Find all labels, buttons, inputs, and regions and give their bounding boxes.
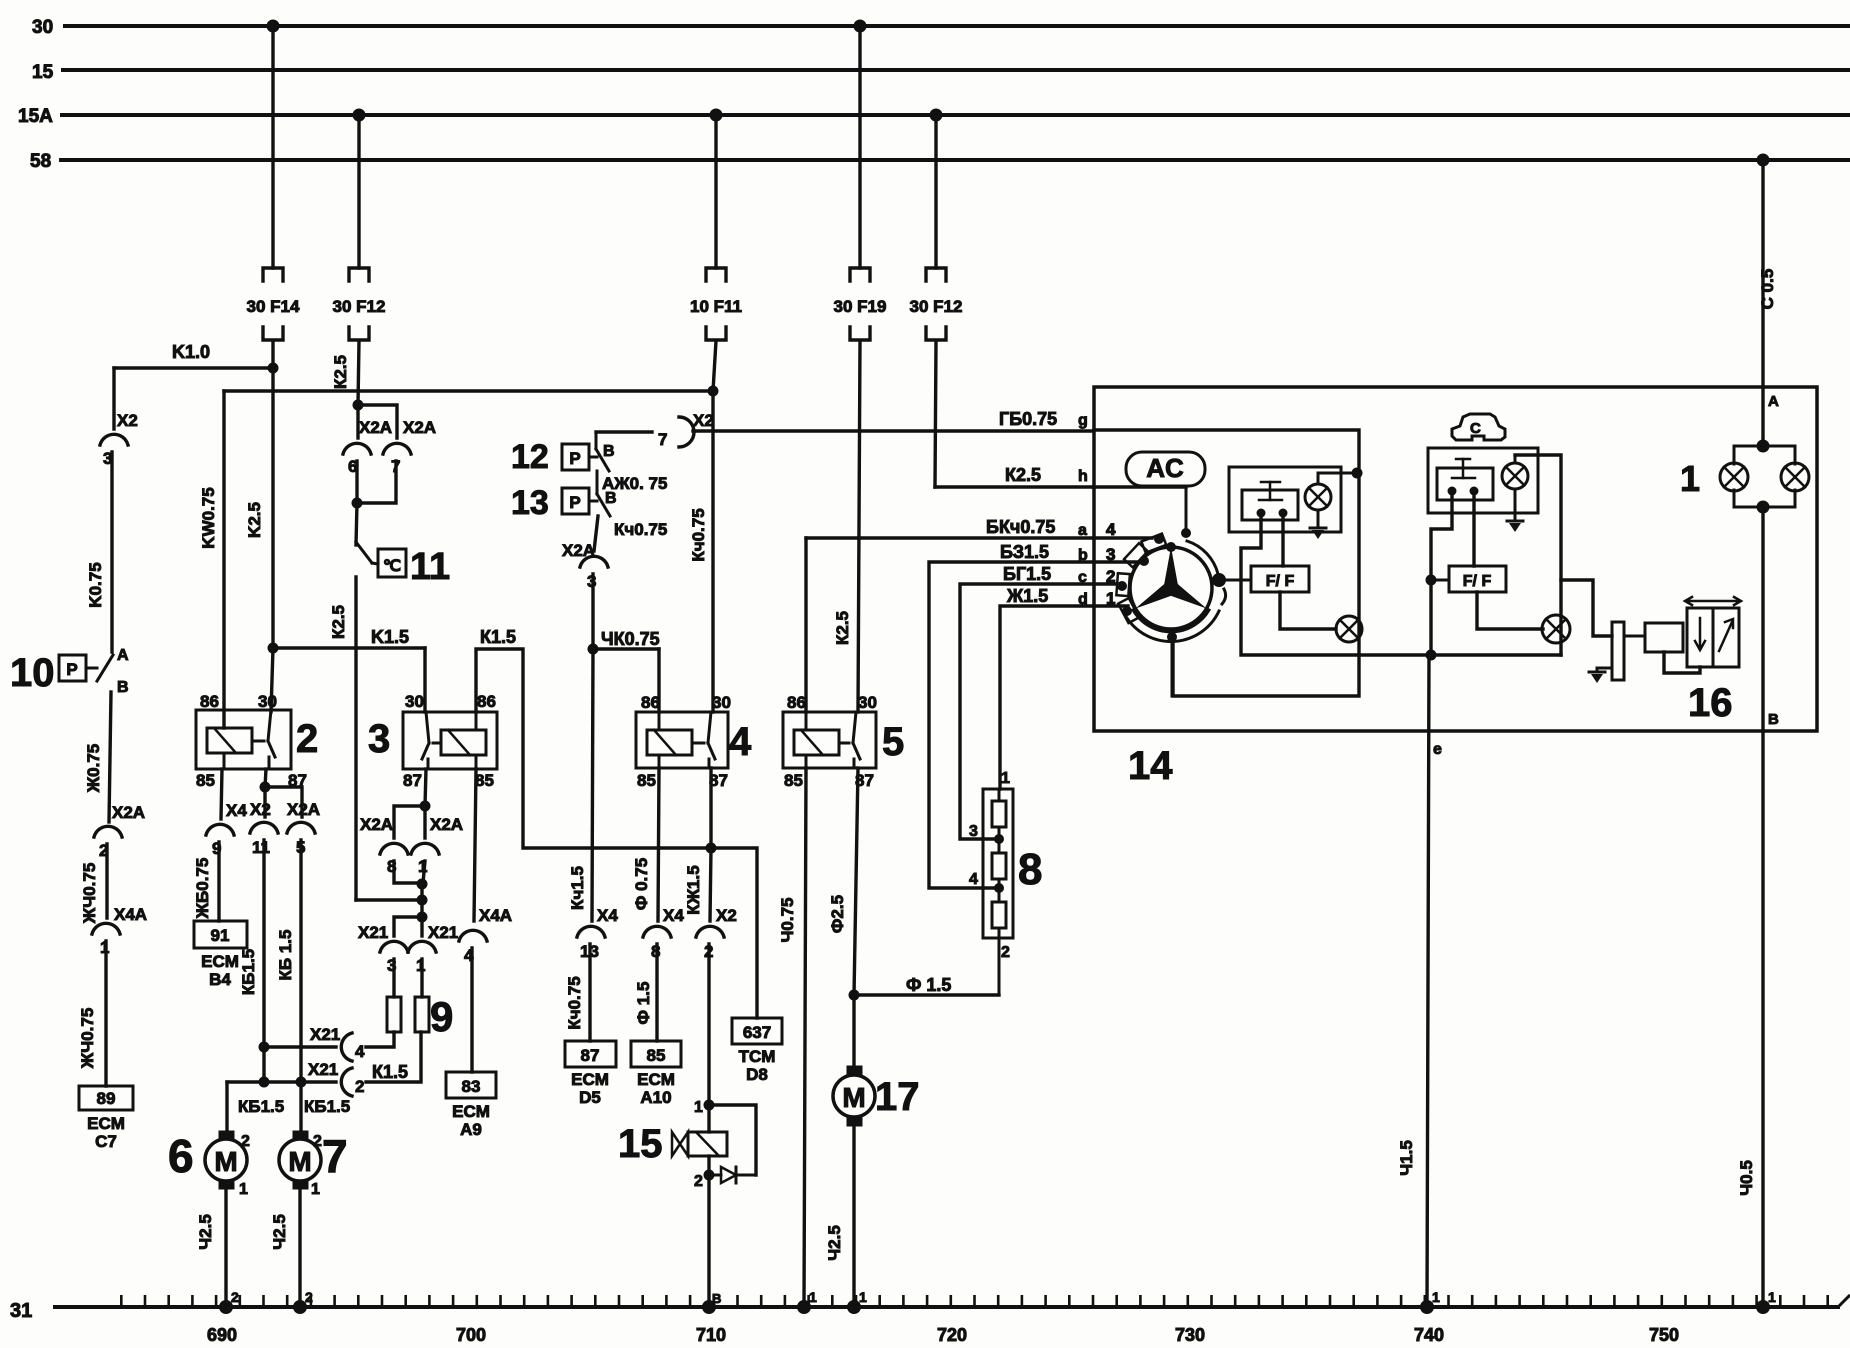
svg-text:ЧК0.75: ЧК0.75 — [601, 629, 660, 649]
connector X4 pin8 — [643, 926, 671, 937]
fan pad b — [1124, 543, 1148, 567]
connector X2 pin7 — [679, 417, 694, 447]
line31 junction motor7 — [293, 1300, 307, 1314]
wire K2.5 h — [935, 485, 1093, 488]
svg-text:9: 9 — [430, 993, 453, 1040]
svg-text:КБ1.5: КБ1.5 — [239, 949, 258, 995]
svg-text:8: 8 — [1018, 845, 1042, 894]
svg-text:700: 700 — [456, 1325, 486, 1345]
resistor 8 element 2 — [992, 853, 1006, 879]
svg-text:M: M — [842, 1082, 865, 1113]
svg-text:X2: X2 — [693, 411, 714, 430]
wire ChK0.75 — [593, 647, 659, 650]
module2 enclosure — [1428, 448, 1538, 513]
fan bottom band — [1133, 610, 1209, 632]
junction F/F2 input — [1426, 575, 1437, 586]
actuator ground — [1597, 667, 1612, 670]
wire Kch1.5 down — [592, 649, 593, 921]
svg-text:85: 85 — [784, 771, 803, 790]
svg-text:7: 7 — [322, 1130, 348, 1182]
module2 right dot wire — [1472, 495, 1475, 566]
wire F12b drop — [934, 115, 937, 268]
line 31 ticks — [120, 1295, 1836, 1307]
svg-text:KW0.75: KW0.75 — [199, 487, 218, 548]
wire X21-3 to resistor — [392, 959, 395, 997]
wire X2A-7 loop bottom — [357, 461, 396, 503]
wire relay5 pin86 up — [804, 538, 807, 712]
svg-text:X2A: X2A — [430, 815, 463, 834]
wire K1.0 — [114, 366, 273, 369]
svg-text:10 F11: 10 F11 — [690, 297, 742, 316]
ECM pin 87 box — [565, 1041, 616, 1067]
svg-text:ЖБ0.75: ЖБ0.75 — [193, 858, 212, 920]
svg-text:637: 637 — [743, 1023, 771, 1042]
wire relay4 pin87 down — [709, 768, 712, 848]
ECM pin 83 box — [446, 1072, 496, 1098]
junction solenoid pin2 — [704, 1170, 715, 1181]
component 16 twin box — [1687, 608, 1739, 667]
svg-text:15: 15 — [32, 62, 54, 83]
module2 left dot wire — [1431, 495, 1452, 655]
svg-text:К2.5: К2.5 — [331, 355, 350, 389]
svg-text:e: e — [1433, 741, 1442, 758]
fuse F14 30A — [263, 268, 283, 281]
svg-text:2: 2 — [241, 1133, 250, 1150]
resistor 8 element 1 — [992, 801, 1006, 827]
svg-text:Ч0.75: Ч0.75 — [778, 897, 797, 942]
junction KB left/bottom — [259, 1077, 270, 1088]
connector X2 pin3 — [100, 434, 128, 445]
wire Zh1.5 d — [1000, 606, 1128, 789]
junction X2A loop top — [353, 400, 364, 411]
wire Kch0.75 relay4 pin30 — [711, 391, 714, 712]
junction X2A loop bottom — [352, 498, 363, 509]
module1 relay box — [1229, 467, 1341, 532]
relay 4 — [636, 712, 728, 768]
svg-text:2: 2 — [694, 1173, 703, 1190]
svg-text:85: 85 — [196, 771, 215, 790]
svg-text:3: 3 — [1106, 545, 1115, 564]
connector X4 pin9 — [206, 824, 234, 835]
svg-text:5: 5 — [882, 720, 904, 764]
relay 5 — [783, 712, 876, 768]
actuator mid box — [1624, 635, 1645, 638]
svg-text:X4: X4 — [597, 906, 618, 925]
svg-text:X2: X2 — [716, 906, 737, 925]
junction Ф1.5 — [849, 990, 860, 1001]
svg-text:F/ F: F/ F — [1266, 573, 1295, 590]
svg-text:4: 4 — [729, 720, 752, 764]
wire relay3 pin85 down — [474, 769, 476, 921]
connector X21 pin4 — [341, 1033, 352, 1061]
fan motor star — [1164, 547, 1179, 588]
connector X2A pin8 — [380, 843, 408, 854]
wire lamp to edge — [1359, 628, 1362, 631]
svg-text:Ч0.5: Ч0.5 — [1737, 1160, 1756, 1196]
wire K0.75 — [110, 452, 113, 652]
bus 58 wire — [61, 158, 1850, 162]
wire relay5 pin87 down Ф2.5 — [854, 768, 858, 995]
wire Kch0.75 to ECM87 — [588, 944, 591, 1041]
junction K1.5/TCM — [706, 843, 717, 854]
svg-text:a: a — [1078, 522, 1087, 539]
fan pad c — [1116, 573, 1130, 596]
relay 2 — [196, 710, 291, 769]
svg-text:86: 86 — [477, 692, 496, 711]
connector X2 pin11 — [250, 822, 278, 833]
svg-text:Ф 1.5: Ф 1.5 — [634, 982, 653, 1025]
svg-text:К1.5: К1.5 — [372, 1062, 408, 1082]
relay 3 — [403, 712, 497, 769]
svg-text:БГ1.5: БГ1.5 — [1003, 564, 1051, 584]
junction module1 edge — [1352, 468, 1363, 479]
fan pad a — [1141, 534, 1166, 553]
svg-text:10: 10 — [10, 651, 55, 695]
svg-text:1: 1 — [239, 1181, 248, 1198]
wire KB1.5 right column — [299, 840, 302, 1082]
svg-text:K2.5: K2.5 — [245, 502, 264, 538]
module2 lamp — [1502, 463, 1528, 489]
connector X21 pin2 — [341, 1068, 352, 1096]
junction bus15A/F12 — [353, 109, 366, 122]
svg-text:1: 1 — [1680, 458, 1700, 499]
svg-text:16: 16 — [1688, 681, 1733, 725]
svg-text:X4: X4 — [226, 801, 247, 820]
wire switch11 to node — [356, 898, 422, 901]
svg-text:2: 2 — [231, 1289, 239, 1305]
fan terminal dots — [1154, 534, 1164, 544]
resistor 8 element 3 — [992, 902, 1006, 928]
wire F/F2 to lamp — [1477, 592, 1543, 629]
svg-text:C: C — [1470, 420, 1481, 437]
svg-text:ECM: ECM — [452, 1102, 490, 1121]
svg-text:d: d — [1078, 591, 1088, 608]
wire BZ1.5 b — [929, 562, 1136, 888]
lamp block bottom node — [1757, 501, 1770, 514]
svg-text:30 F12: 30 F12 — [333, 297, 386, 316]
fuse F11 10A — [706, 268, 726, 281]
wire fan bottom — [1171, 642, 1174, 696]
wire ZhCh0.75 b — [104, 941, 107, 1086]
svg-text:С 0.5: С 0.5 — [1758, 269, 1777, 310]
svg-text:B4: B4 — [209, 970, 231, 989]
module1 indicator lamp — [1336, 616, 1362, 642]
wire fan to F/F1 — [1226, 579, 1251, 582]
line31 junction motor17 — [847, 1300, 861, 1314]
svg-text:ECM: ECM — [87, 1114, 125, 1133]
wire Ф1.5 to ECM85 — [655, 944, 658, 1041]
line31 junction B — [702, 1300, 716, 1314]
junction node3a — [417, 879, 428, 890]
wire Ch0.5 down — [1761, 507, 1764, 1307]
resistor 8 pin2 — [998, 938, 1001, 995]
svg-text:X21: X21 — [310, 1025, 340, 1044]
ECM pin 91 box — [194, 921, 247, 948]
svg-text:M: M — [214, 1146, 237, 1177]
module1 lamp top wire — [1317, 473, 1320, 484]
svg-text:X4A: X4A — [114, 905, 147, 924]
junction relay2-87 — [260, 782, 271, 793]
svg-text:3: 3 — [368, 717, 390, 761]
svg-text:2: 2 — [355, 1077, 364, 1096]
connector X21 pin1 — [408, 941, 436, 952]
svg-text:h: h — [1078, 468, 1088, 485]
diode D15 — [709, 1174, 721, 1177]
svg-text:1: 1 — [1106, 589, 1115, 608]
wire BKch0.75 a — [806, 536, 1152, 539]
svg-text:AC: AC — [1146, 453, 1184, 483]
wire F14col to relay2 pin30 — [271, 648, 273, 712]
wire Ch2.5 motor7 — [298, 1189, 301, 1307]
module1 lamp ground — [1317, 510, 1320, 528]
ECM pin 85 box — [631, 1041, 681, 1067]
svg-text:Кч0.75: Кч0.75 — [565, 976, 584, 1029]
svg-text:86: 86 — [787, 693, 806, 712]
wire KZh1.5 — [710, 848, 711, 921]
svg-text:11: 11 — [252, 838, 270, 857]
thermal switch 11 sensor box — [378, 549, 406, 577]
svg-text:D8: D8 — [746, 1065, 768, 1084]
line31 junction motor6 — [219, 1300, 233, 1314]
junction solenoid pin1 — [704, 1100, 715, 1111]
bus 30 wire — [65, 24, 1850, 28]
resistor 9 right element — [415, 997, 429, 1032]
wire Ch2.5 motor17 — [852, 1126, 855, 1307]
junction node3c — [417, 912, 428, 923]
connector X4A pin1 — [92, 923, 120, 934]
svg-text:2: 2 — [1106, 567, 1115, 586]
svg-text:3: 3 — [969, 823, 978, 840]
wire node column — [420, 883, 423, 917]
junction resistor8 tap4 — [998, 879, 1001, 902]
junction K1.0/F14 — [268, 363, 279, 374]
svg-text:4: 4 — [969, 871, 978, 888]
lamp 1 right — [1781, 463, 1809, 491]
wire relay3 pin87 down — [425, 769, 426, 806]
svg-text:7: 7 — [658, 430, 667, 449]
fan motor 14 circle — [1130, 547, 1212, 629]
junction module2 bottom — [1426, 650, 1437, 661]
resistor 8 outer box — [983, 789, 1013, 938]
svg-text:83: 83 — [462, 1077, 481, 1096]
svg-text:86: 86 — [641, 693, 660, 712]
switch 10 blade — [86, 667, 97, 670]
wire KB bottom horizontal — [227, 1080, 336, 1083]
wire to X2A-6 — [356, 405, 359, 438]
wire top to X2-7 — [596, 430, 652, 433]
wire diode loop — [709, 1105, 756, 1175]
svg-text:30: 30 — [32, 17, 53, 38]
line31 junction Ch1.5 — [1420, 1300, 1434, 1314]
wire KB1.5 left column — [262, 840, 265, 1047]
module2 lamp ground — [1514, 489, 1517, 521]
wire relay5 pin85 down Ch0.75 — [804, 768, 806, 1307]
svg-text:12: 12 — [511, 438, 549, 476]
module1 contact dots — [1257, 509, 1266, 518]
module1 right dot wire — [1281, 517, 1284, 566]
svg-text:P: P — [569, 493, 580, 512]
svg-text:Кч0.75: Кч0.75 — [689, 508, 708, 561]
wire 87 to X2-11 — [263, 787, 266, 817]
wire K2.5 F12b column — [935, 341, 936, 487]
svg-text:2: 2 — [296, 717, 318, 761]
wire K1.5 first — [273, 646, 425, 649]
wire ZhCh0.75 a — [105, 844, 108, 918]
svg-text:КБ1.5: КБ1.5 — [304, 1097, 350, 1116]
svg-text:720: 720 — [937, 1325, 967, 1345]
car icon — [1452, 414, 1505, 440]
wire bottom link — [1359, 653, 1431, 656]
wire to X21-1 — [420, 917, 423, 936]
svg-text:K0.75: K0.75 — [86, 562, 105, 607]
TCM pin 637 box — [732, 1018, 782, 1044]
svg-text:g: g — [1078, 412, 1088, 429]
svg-text:1: 1 — [694, 1099, 703, 1116]
svg-text:℃: ℃ — [383, 558, 401, 575]
junction node3b — [417, 895, 428, 906]
svg-text:Ф 0.75: Ф 0.75 — [632, 858, 651, 910]
lamp block frame bottom — [1733, 490, 1736, 507]
wire module2 exit — [1515, 455, 1561, 655]
svg-text:КБ1.5: КБ1.5 — [238, 1097, 284, 1116]
svg-text:30 F14: 30 F14 — [247, 297, 300, 316]
wire X2A-1 below — [423, 861, 425, 883]
box 14 outline — [1094, 387, 1817, 731]
svg-text:30: 30 — [712, 693, 731, 712]
junction KB/X21-4 — [259, 1042, 270, 1053]
module1 lamp — [1305, 484, 1331, 510]
svg-text:Ф2.5: Ф2.5 — [828, 895, 847, 933]
wire F11 drop — [714, 115, 717, 268]
svg-text:2: 2 — [1001, 944, 1010, 961]
junction bus30/F19 — [854, 20, 867, 33]
wire K2.5 horizontal — [224, 389, 713, 392]
svg-text:X2A: X2A — [360, 815, 393, 834]
wire to thermal switch — [356, 503, 357, 545]
junction bus30/F14 — [267, 20, 280, 33]
svg-text:91: 91 — [211, 926, 230, 945]
wire K1.5 to resistor right — [366, 1032, 421, 1082]
svg-text:87: 87 — [403, 771, 422, 790]
svg-text:КЖ1.5: КЖ1.5 — [684, 865, 703, 914]
svg-text:БЗ1.5: БЗ1.5 — [1000, 542, 1049, 562]
wire 13 to X2A-3 — [594, 516, 598, 551]
fan right node — [1212, 573, 1226, 587]
wire X2-2 to solenoid — [707, 944, 710, 1105]
svg-text:Ф 1.5: Ф 1.5 — [906, 975, 951, 995]
svg-text:1: 1 — [1432, 1289, 1440, 1305]
connector X2A pin3 — [580, 556, 608, 567]
wire solenoid to line31 — [707, 1175, 710, 1307]
junction bus15A/F11 — [710, 109, 723, 122]
svg-text:F/ F: F/ F — [1463, 573, 1492, 590]
connector X2A pin1 — [411, 843, 439, 854]
svg-text:X2A: X2A — [359, 418, 392, 437]
svg-text:Ч2.5: Ч2.5 — [270, 1214, 289, 1250]
connector X21 pin3 — [380, 941, 408, 952]
svg-text:Кч0.75: Кч0.75 — [614, 520, 667, 539]
wire K2.5 F19 column — [858, 341, 860, 712]
wire F/F1 to lamp — [1280, 592, 1336, 629]
svg-text:P: P — [569, 449, 580, 468]
svg-text:К2.5: К2.5 — [329, 605, 348, 639]
wire 87 loop to X2A-8 — [394, 806, 425, 838]
fuse F12 30A — [349, 268, 369, 281]
svg-text:A: A — [1768, 393, 1779, 410]
line31 junction Ch0.5 — [1756, 1300, 1770, 1314]
svg-text:89: 89 — [97, 1089, 116, 1108]
actuator link — [1664, 652, 1700, 673]
module1 enclosure — [1094, 430, 1359, 696]
svg-text:Кч1.5: Кч1.5 — [568, 866, 587, 910]
junction ChK0.75 — [588, 644, 599, 655]
svg-text:13: 13 — [511, 484, 549, 522]
module1 contact box — [1242, 490, 1298, 520]
wire relay2 pin85 down — [221, 769, 222, 819]
wire to F/F2 — [1431, 579, 1449, 582]
wire motor6 feed — [225, 1082, 228, 1131]
svg-text:30: 30 — [405, 692, 424, 711]
svg-text:750: 750 — [1649, 1325, 1679, 1345]
svg-text:X4A: X4A — [479, 906, 512, 925]
lamp block frame — [1734, 445, 1795, 448]
wire F11 below fuse — [713, 341, 716, 391]
svg-text:2: 2 — [305, 1289, 313, 1305]
junction relay3-87 — [420, 801, 431, 812]
svg-text:X2A: X2A — [403, 418, 436, 437]
svg-text:ECM: ECM — [571, 1070, 609, 1089]
wire F12 drop — [357, 115, 360, 268]
wire Ch1.5 e column — [1427, 655, 1429, 1307]
svg-text:17: 17 — [875, 1075, 920, 1119]
svg-text:X21: X21 — [428, 923, 458, 942]
bus 15 wire — [63, 68, 1850, 72]
svg-text:4: 4 — [1106, 520, 1116, 539]
svg-text:X2: X2 — [117, 411, 138, 430]
motor 17 — [847, 1066, 862, 1075]
switch 13 blade — [589, 500, 597, 503]
wire X21-4 to resistor — [366, 1032, 394, 1047]
junction K1.5/F14col — [268, 643, 279, 654]
switch 12 blade — [589, 456, 597, 459]
svg-text:30: 30 — [258, 692, 277, 711]
module1 left dot wire — [1241, 517, 1359, 655]
svg-text:К2.5: К2.5 — [833, 611, 852, 645]
wire X2A-8 below — [394, 861, 422, 883]
flip-flop F/F 2 — [1449, 566, 1506, 592]
wire X21-4 horizontal — [264, 1045, 336, 1048]
twin box stroke arrow — [1685, 597, 1741, 605]
svg-text:2: 2 — [313, 1133, 322, 1150]
svg-text:85: 85 — [475, 771, 494, 790]
wire Ch2.5 motor6 — [224, 1189, 227, 1307]
junction K2.5/F11 — [708, 386, 719, 397]
lamp 1 left — [1720, 463, 1748, 491]
wire C0.5 — [1761, 160, 1764, 446]
svg-text:X2: X2 — [250, 800, 271, 819]
wire X2A-6 below — [355, 461, 358, 503]
svg-text:КБ 1.5: КБ 1.5 — [276, 930, 295, 981]
svg-text:Ч1.5: Ч1.5 — [1397, 1140, 1416, 1176]
module2 contact tick — [1452, 477, 1475, 480]
wire X2-3 drop — [112, 368, 115, 429]
module2 contact dots — [1448, 487, 1457, 496]
svg-text:740: 740 — [1414, 1325, 1444, 1345]
module1 contact tick — [1259, 499, 1282, 502]
svg-text:14: 14 — [1128, 744, 1173, 788]
svg-text:b: b — [1078, 547, 1088, 564]
svg-text:710: 710 — [696, 1325, 726, 1345]
